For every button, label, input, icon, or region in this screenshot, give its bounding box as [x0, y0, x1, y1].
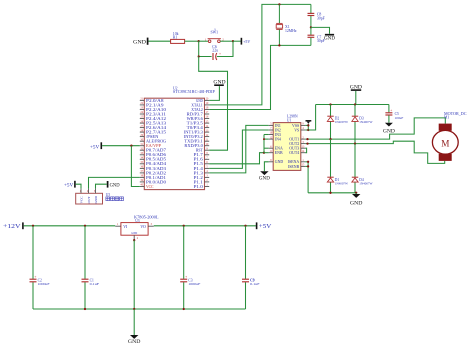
- svg-text:OUT3: OUT3: [289, 147, 299, 151]
- power +5V (IR module): [64, 181, 75, 189]
- svg-text:OUT2: OUT2: [289, 142, 299, 146]
- pin 20 GND (U2 right): [196, 98, 209, 103]
- svg-text:GND: GND: [383, 128, 395, 134]
- node C1 bottom junction: [84, 308, 86, 310]
- wire node RST-A down to C6 left: [199, 41, 212, 56]
- node D4-rail junction: [355, 192, 357, 194]
- node VS junction: [307, 129, 309, 131]
- wire top supply rail: [316, 104, 389, 106]
- node OUT1-D2 junction: [329, 138, 331, 140]
- svg-text:ENB: ENB: [275, 151, 283, 155]
- ground GND (reset pull-down): [133, 38, 148, 46]
- svg-text:+: +: [390, 109, 392, 113]
- capacitor C3 1000uF: [180, 275, 200, 286]
- pin 8 GND (U1 left): [269, 159, 284, 164]
- wire regulator VO to +5V: [154, 225, 256, 227]
- wire GND symbol to U2 pin 20: [209, 86, 219, 100]
- wire ENB-ENA-IN4-IN3 vertical tie: [264, 135, 269, 153]
- wire U1 GND pin to ground: [264, 162, 268, 171]
- pin 23 P2.2/A10 (U2 left): [140, 107, 166, 112]
- svg-text:OUT1: OUT1: [289, 138, 299, 142]
- svg-text:M: M: [441, 139, 449, 149]
- capacitor C6 22u: [212, 45, 221, 60]
- pin 33 P0.6/AD6 (U2 left): [140, 152, 166, 157]
- node RST-B junction: [232, 40, 234, 42]
- wire OUT2 to motor bottom terminal: [305, 141, 444, 163]
- ground GND (above U2 pin 20): [213, 79, 225, 85]
- svg-text:+5V: +5V: [90, 145, 100, 150]
- node OUT2 pin junction: [306, 142, 308, 144]
- svg-text:IN1: IN1: [275, 124, 281, 128]
- node C3 top junction: [183, 225, 185, 227]
- wire D1 column lower: [330, 139, 332, 193]
- node C9 top junction: [244, 225, 246, 227]
- svg-text:OUT4: OUT4: [289, 151, 299, 155]
- node GND stem junction: [133, 308, 135, 310]
- pin 16 WR/P3.6 (U2 right): [187, 116, 210, 121]
- wire XTAL1 from MCU pin 19: [209, 4, 311, 105]
- svg-text:22u: 22u: [212, 49, 218, 53]
- ground GND (C5): [385, 123, 393, 127]
- svg-text:0.1uF: 0.1uF: [90, 282, 100, 286]
- ground GND (supply): [130, 335, 138, 339]
- resistor R1 10k: [171, 32, 185, 44]
- pin 13 OUT3 (U1 right): [289, 145, 305, 150]
- pin 27 P2.6/A14 (U2 left): [140, 125, 166, 130]
- wire D2 column upper: [330, 105, 332, 140]
- wire C1 column: [84, 226, 86, 309]
- transistor U5 infrared module: [76, 189, 124, 204]
- wire P1.5 to ENB/ENA/IN4/IN3 stack: [209, 153, 264, 164]
- pin 1 ISENA (U1 right): [288, 159, 306, 164]
- pin 35 P0.4/AD4 (U2 left): [140, 161, 166, 166]
- node OUT2-D3 junction: [354, 142, 356, 144]
- wire reset net to MCU RST pin: [199, 57, 228, 151]
- pin 14 T0/P3.4 (U2 right): [187, 125, 210, 130]
- pin 36 P0.3/AD3 (U2 left): [140, 166, 166, 171]
- pin 9 RST (U2 right): [196, 147, 209, 152]
- svg-text:ENA: ENA: [275, 147, 283, 151]
- pin 1 P1.0 (U2 right): [194, 184, 210, 189]
- svg-text:+12V: +12V: [3, 223, 21, 230]
- wire +12V to regulator VI: [24, 225, 116, 227]
- capacitor C1 0.1uF: [82, 278, 100, 286]
- svg-text:VSS: VSS: [292, 124, 299, 128]
- node crystal-bottom junction: [278, 44, 280, 46]
- wire C2 column: [32, 226, 34, 309]
- switch SW1: [205, 28, 224, 42]
- pin 5 P1.4 (U2 right): [194, 166, 210, 171]
- node regulator GND junction: [133, 239, 135, 241]
- svg-text:VO: VO: [140, 225, 146, 229]
- svg-text:1000uF: 1000uF: [188, 282, 200, 286]
- capacitor C2 1000uF: [30, 275, 50, 286]
- node C1 top junction: [84, 225, 86, 227]
- wire OUT1 to motor top terminal: [305, 118, 445, 139]
- node C3 bottom junction: [183, 308, 185, 310]
- svg-text:+: +: [219, 52, 221, 56]
- node D1-rail junction: [329, 192, 331, 194]
- capacitor C8 30pF: [308, 4, 325, 27]
- svg-text:GND: GND: [259, 176, 270, 181]
- pin 18 XTAL2 (U2 right): [191, 107, 209, 112]
- svg-text:GND: GND: [110, 183, 121, 188]
- node IN4 junction: [263, 138, 265, 140]
- wire GND to R1: [149, 40, 171, 42]
- power bar (U1 VSS): [306, 121, 312, 126]
- node rail-D2 junction: [329, 103, 331, 105]
- wire IR module OUT to P0.1: [89, 177, 140, 188]
- pin 34 P0.5/AD5 (U2 left): [140, 157, 166, 162]
- svg-text:IN4: IN4: [275, 138, 281, 142]
- pin 11 ENB (U1 left): [269, 150, 283, 155]
- pin 21 P2.0/A8 (U2 left): [140, 98, 164, 103]
- svg-text:+5V: +5V: [243, 39, 251, 44]
- svg-text:GND: GND: [350, 200, 363, 206]
- svg-text:VCC: VCC: [80, 196, 84, 204]
- op-amp U1 L298N motor driver body: [273, 115, 301, 171]
- pin 10 RXD/P3.0 (U2 right): [184, 143, 209, 148]
- svg-text:ISENB: ISENB: [288, 165, 300, 169]
- wire bottom supply rail: [33, 308, 246, 310]
- wire C9 column: [245, 226, 247, 309]
- svg-text:1N4007W: 1N4007W: [335, 120, 349, 124]
- pin 37 P0.2/AD2 (U2 left): [140, 170, 166, 175]
- svg-text:30pF: 30pF: [317, 16, 325, 20]
- pin 4 P1.3 (U2 right): [194, 170, 210, 175]
- node VSS junction: [307, 124, 309, 126]
- wire XTAL2 from MCU pin 18: [209, 45, 311, 109]
- svg-text:OUT: OUT: [87, 196, 91, 204]
- pin 19 XTAL1 (U2 right): [191, 102, 209, 107]
- wire OUT3-OUT4 tie: [305, 148, 306, 153]
- svg-text:1N4007W: 1N4007W: [335, 181, 349, 185]
- svg-text:12MHz: 12MHz: [285, 29, 297, 33]
- wire to crystal ground: [311, 27, 330, 33]
- svg-text:+: +: [185, 275, 187, 279]
- node RST-A junction: [198, 40, 200, 42]
- wire D3 column upper: [354, 105, 356, 144]
- power +5V (U2 EA/VPP): [90, 142, 101, 150]
- pin 38 P0.1/AD1 (U2 left): [140, 175, 166, 180]
- pin 12 INT0/P3.2 (U2 right): [184, 134, 209, 139]
- pin 7 P1.6 (U2 right): [194, 157, 210, 162]
- pin 6 ENA (U1 left): [269, 145, 283, 150]
- svg-text:1000uF: 1000uF: [38, 282, 50, 286]
- svg-text:M1: M1: [444, 116, 449, 120]
- wire VS to +12V rail: [308, 105, 315, 131]
- capacitor C9 0.1uF: [242, 278, 260, 286]
- pin 17 RD/P3.7 (U2 right): [187, 111, 210, 116]
- ground GND (crystal): [325, 34, 334, 36]
- svg-text:VCC: VCC: [146, 184, 154, 189]
- ground GND (below D4): [350, 193, 363, 207]
- op-amp U2 STC89C51RC microcontroller body: [144, 86, 215, 189]
- op-amp U3 K7805-2000L regulator body: [115, 215, 159, 240]
- wire P1.4 to IN2: [209, 130, 269, 168]
- node ISENB junction: [307, 165, 309, 167]
- svg-text:+5V: +5V: [259, 223, 272, 230]
- node ENB junction: [263, 152, 265, 154]
- pin 32 P0.7/AD7 (U2 left): [140, 147, 166, 152]
- pin 8 P1.7 (U2 right): [194, 152, 210, 157]
- wire C6 right up to node RST-B: [217, 41, 233, 56]
- pin 5 IN1 (U1 left): [269, 123, 281, 128]
- svg-text:VS: VS: [294, 128, 299, 132]
- pin 30 ALE/PROG (U2 left): [140, 138, 166, 143]
- svg-text:100uF: 100uF: [395, 116, 404, 120]
- pin 29 /PSEN (U2 left): [140, 134, 159, 139]
- svg-text:GND: GND: [94, 196, 98, 204]
- ground GND (top rail): [350, 85, 362, 105]
- wire SW1 pin2 to node RST-B: [220, 40, 233, 42]
- node C2 top junction: [32, 225, 34, 227]
- svg-text:R1: R1: [173, 36, 178, 40]
- pin 10 IN3 (U1 left): [269, 132, 281, 137]
- capacitor C7 30pF: [308, 27, 325, 45]
- wire +5V down to VCC pin: [131, 146, 139, 187]
- diode D1 1N4007W: [327, 177, 348, 185]
- pin 39 P0.0/AD0 (U2 left): [140, 179, 166, 184]
- diode D2 1N4007W: [327, 116, 348, 124]
- pin 13 INT1/P3.3 (U2 right): [184, 129, 209, 134]
- pin 6 P1.5 (U2 right): [194, 161, 210, 166]
- wire bottom sense rail: [308, 192, 356, 194]
- power +5V output: [257, 222, 272, 230]
- svg-text:1N4007W: 1N4007W: [359, 181, 373, 185]
- pin 15 ISENB (U1 right): [288, 164, 305, 169]
- node ISENA junction: [307, 161, 309, 163]
- pin 40 VCC (U2 left): [140, 184, 154, 189]
- node OUT1 pin junction: [306, 138, 308, 140]
- pin 24 P2.3/A11 (U2 left): [140, 111, 166, 116]
- pin 12 IN4 (U1 left): [269, 136, 281, 141]
- pin 3 OUT2 (U1 right): [289, 141, 305, 146]
- node crystal-top junction: [278, 3, 280, 5]
- svg-text:U5: U5: [106, 193, 111, 197]
- pin 7 IN2 (U1 left): [269, 127, 281, 132]
- pin 14 OUT4 (U1 right): [289, 150, 305, 155]
- wire P1.3 to IN1: [209, 125, 269, 172]
- svg-text:GND: GND: [324, 36, 335, 41]
- pin 25 P2.4/A12 (U2 left): [140, 116, 166, 121]
- svg-text:P1.0: P1.0: [194, 184, 203, 189]
- svg-text:30pF: 30pF: [317, 39, 325, 43]
- pin 28 P2.7/A15 (U2 left): [140, 129, 166, 134]
- svg-text:IN2: IN2: [275, 128, 281, 132]
- ground GND (IR module): [108, 181, 121, 188]
- wire +5V to EA/VPP: [102, 145, 140, 147]
- wire VSS to VS tie: [305, 125, 308, 130]
- node EA junction: [130, 145, 132, 147]
- svg-text:+: +: [34, 275, 36, 279]
- pin 15 T1/P3.5 (U2 right): [187, 120, 210, 125]
- node C6-left junction: [198, 55, 200, 57]
- wire D4 column lower: [354, 144, 356, 193]
- svg-text:GND: GND: [131, 232, 137, 235]
- crystal X1 12MHz: [276, 4, 297, 45]
- svg-text:GND: GND: [275, 160, 284, 164]
- wire rail to supply ground: [133, 309, 135, 335]
- wire node RST-A to SW1 pin1: [199, 40, 209, 42]
- svg-text:STC89C51RC-40I-PDIP: STC89C51RC-40I-PDIP: [173, 90, 215, 94]
- wire ISENA/ISENB to ground rail: [305, 162, 308, 193]
- pin 2 OUT1 (U1 right): [289, 136, 305, 141]
- svg-text:+5V: +5V: [64, 183, 74, 188]
- wire regulator GND down: [133, 240, 135, 309]
- svg-text:GND: GND: [133, 39, 146, 45]
- svg-text:1N4007W: 1N4007W: [359, 120, 373, 124]
- pin 11 TXD/P3.1 (U2 right): [184, 138, 209, 143]
- node rail-D3 junction: [354, 103, 356, 105]
- pin 31 EA/VPP (U2 left): [140, 143, 162, 148]
- pin 3 P1.2 (U2 right): [194, 175, 210, 180]
- pin 26 P2.5/A13 (U2 left): [140, 120, 166, 125]
- ground GND (U1): [260, 171, 268, 175]
- diode D4 1N4007W: [352, 177, 373, 185]
- svg-text:GND: GND: [128, 339, 141, 345]
- motor M1 MOTOR_DC: [432, 111, 466, 161]
- capacitor C5 100uF: [385, 105, 403, 123]
- svg-text:IN3: IN3: [275, 133, 281, 137]
- svg-text:ISENA: ISENA: [288, 160, 300, 164]
- svg-text:U1: U1: [287, 118, 292, 122]
- diode D3 1N4007W: [352, 116, 373, 124]
- wire R1 to node RST-A: [185, 40, 199, 42]
- pin 9 VSS (U1 right): [292, 123, 305, 128]
- power +5V (reset): [233, 38, 251, 45]
- wire C3 column: [183, 226, 185, 309]
- wire +5V to IR module VCC: [76, 184, 81, 188]
- pin 22 P2.1/A9 (U2 left): [140, 102, 164, 107]
- power +12V input: [3, 222, 23, 230]
- svg-text:0.1uF: 0.1uF: [250, 282, 260, 286]
- wire IR module GND to ground: [96, 184, 107, 188]
- node C4-C7 junction: [310, 26, 312, 28]
- pin 2 P1.1 (U2 right): [194, 179, 210, 184]
- pin 4 VS (U1 right): [294, 127, 305, 132]
